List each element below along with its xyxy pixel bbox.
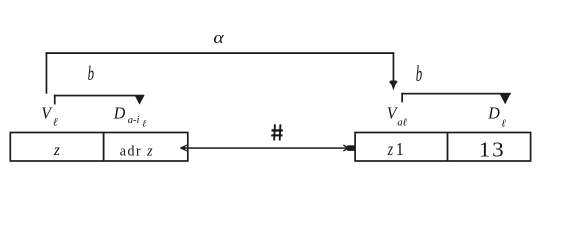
svg-text:b: b: [88, 62, 94, 85]
bracket b right wire: [401, 93, 511, 103]
arrowhead connector left: [180, 145, 188, 151]
bracket alpha wire: [46, 52, 395, 93]
svg-text:b: b: [416, 62, 422, 86]
label V_l: [41, 103, 58, 129]
bracket b left wire: [54, 95, 144, 105]
label D_a-i_l: [113, 103, 146, 130]
svg-text:ℓ: ℓ: [142, 120, 146, 130]
label D_l: [487, 103, 506, 129]
wire connector: [181, 147, 356, 149]
svg-text:1: 1: [396, 139, 404, 159]
svg-text:a-i: a-i: [128, 115, 140, 126]
arrowhead b right down: [499, 93, 511, 104]
label b right: [416, 62, 422, 86]
label V_al: [387, 103, 408, 129]
svg-text:z: z: [53, 142, 60, 159]
svg-text:ℓ: ℓ: [501, 118, 506, 129]
svg-text:z: z: [387, 141, 394, 160]
label hash: [271, 124, 283, 140]
svg-text:D: D: [487, 103, 500, 122]
svg-text:V: V: [41, 103, 53, 122]
arrowhead b left down: [134, 95, 144, 105]
arrowhead connector right: [343, 145, 355, 151]
svg-text:13: 13: [479, 137, 506, 161]
svg-text:aℓ: aℓ: [397, 118, 407, 129]
box right divider: [447, 133, 449, 162]
svg-text:D: D: [113, 103, 126, 122]
cell value adr z: [120, 143, 154, 160]
label alpha: [213, 28, 225, 47]
cell value 13: [479, 137, 506, 161]
box left outline: [10, 133, 188, 162]
svg-text:α: α: [213, 28, 225, 47]
box left divider: [103, 133, 105, 162]
arrowhead alpha down: [390, 81, 398, 91]
cell value z: [53, 142, 60, 159]
box right outline: [355, 133, 530, 162]
cell value z1: [387, 139, 404, 159]
svg-text:ℓ: ℓ: [53, 117, 58, 129]
svg-text:adr z: adr z: [120, 143, 154, 160]
label b left: [88, 62, 94, 85]
